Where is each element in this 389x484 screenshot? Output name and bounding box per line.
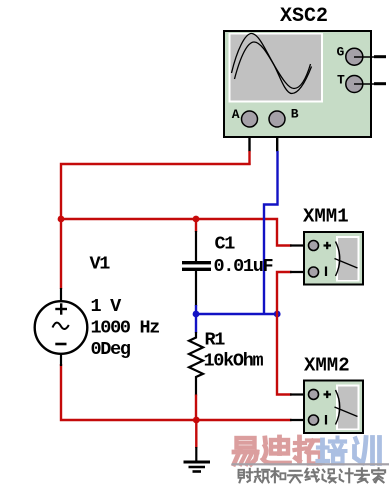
wm tagline pin (255, 469, 270, 483)
wire ground rail (61, 364, 309, 420)
wire XMM1 minus to XMM2 plus (277, 272, 309, 395)
wm tagline zhuan (355, 468, 369, 482)
wire net B: vertical with jog (264, 151, 278, 314)
svg-text:1 V: 1 V (91, 296, 123, 317)
wire net A: scope A stub (248, 119, 250, 165)
svg-text:XMM2: XMM2 (304, 355, 350, 377)
value 0Deg (91, 339, 131, 360)
ground (184, 447, 211, 472)
value 10kOhm (204, 350, 264, 371)
resistor R1 (189, 314, 203, 420)
wm tagline he (271, 468, 285, 482)
XMM1 pin minus (309, 267, 327, 278)
wm char xun (355, 438, 380, 464)
wire net B: scope B stub (276, 119, 278, 152)
junction node B-C1R1 (193, 311, 200, 318)
svg-text:0Deg: 0Deg (91, 339, 131, 360)
multimeter XMM1 body (304, 232, 363, 285)
wm char pei (318, 438, 346, 464)
label C1 (215, 234, 236, 255)
label V1 (90, 254, 111, 275)
svg-text:10kOhm: 10kOhm (204, 350, 264, 371)
svg-text:T: T (337, 73, 345, 88)
oscilloscope U-XSC2 label (280, 5, 328, 28)
scope pin T (337, 73, 386, 93)
multimeter U-XMM1 label (303, 206, 349, 228)
junction ground tap (193, 417, 200, 448)
wm char yi (234, 438, 257, 464)
wm tagline she2 (323, 469, 336, 482)
wire net A: top rail (61, 164, 251, 289)
multimeter XMM2 body (304, 381, 363, 434)
svg-text:G: G (337, 45, 345, 60)
XMM1 pin plus (309, 241, 332, 251)
value 1 V (91, 296, 123, 317)
scope pin A (232, 107, 258, 127)
svg-text:C1: C1 (215, 234, 236, 255)
wm tagline she (239, 469, 253, 483)
wm char di (263, 437, 290, 463)
scope trace 2 (235, 42, 311, 89)
svg-text:1000 Hz: 1000 Hz (91, 318, 160, 339)
wm rule line (232, 463, 389, 465)
scope pin G (337, 45, 387, 66)
scope trace 1 (232, 34, 312, 94)
oscilloscope XSC2 body (224, 31, 371, 137)
value 0.01uF (214, 256, 273, 277)
value 1000 Hz (91, 318, 160, 339)
wm tagline ji (340, 469, 353, 483)
XMM2 pin minus (309, 415, 327, 425)
svg-text:B: B (291, 107, 299, 122)
capacitor C1 (182, 217, 211, 314)
svg-text:XMM1: XMM1 (303, 206, 349, 228)
XMM2 pin plus (309, 389, 332, 399)
svg-text:V1: V1 (90, 254, 111, 275)
AC source V1 (35, 288, 88, 366)
wire net A: horizontal to XMM1 + (61, 219, 309, 246)
multimeter U-XMM2 label (304, 355, 350, 377)
scope pin B (269, 107, 299, 128)
svg-text:0.01uF: 0.01uF (214, 256, 273, 277)
watermark graphic (decorative) (232, 437, 389, 482)
junction node A-C1 (193, 216, 200, 223)
wm tagline xian (305, 469, 319, 482)
wire net B: horizontal C1/R1 tap (196, 313, 277, 315)
junction node A-V1 (58, 216, 65, 223)
wm tagline tian (288, 471, 302, 483)
wm char tuo (295, 437, 322, 464)
wm tagline jia (372, 468, 385, 482)
label R1 (205, 330, 226, 351)
junction node B-XMM (274, 311, 281, 318)
svg-text:R1: R1 (205, 330, 226, 351)
svg-text:XSC2: XSC2 (280, 5, 328, 28)
svg-text:A: A (232, 107, 240, 122)
